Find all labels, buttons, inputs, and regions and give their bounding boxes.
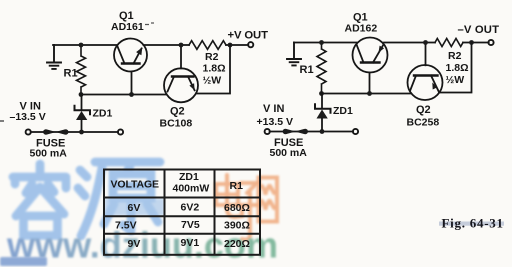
transistor Q1 (right) [353,38,388,73]
svg-text:500 mA: 500 mA [30,148,68,160]
watermark blue tint over 6V cell [105,199,165,216]
svg-text:680Ω: 680Ω [224,202,250,214]
wire top rail right [144,44,249,46]
svg-text:390Ω: 390Ω [224,220,250,232]
terminal bottom right (left circuit) [118,129,123,134]
watermark char RONG (blue) [13,164,66,236]
node Q1 base (right) [367,91,372,96]
svg-text:ZD1: ZD1 [179,171,199,183]
terminal input left [26,129,31,134]
svg-text:Fig. 64-31: Fig. 64-31 [442,216,504,231]
edge mark left [0,120,4,122]
svg-text:Q2: Q2 [416,104,431,116]
node R1 top [79,43,84,48]
transistor Q2 (right) [408,65,443,100]
fuse [43,129,68,134]
node Q1 base [129,92,134,97]
svg-text:220Ω: 220Ω [224,238,250,250]
resistor R1 [77,45,86,95]
resistor R2 [189,41,226,50]
svg-text:9V: 9V [128,238,141,250]
svg-text:400mW: 400mW [173,183,210,195]
wire mid rail [81,94,167,96]
watermark url www.dziuu.com [0,0,1,1]
terminal +V OUT [248,42,253,47]
svg-text:R2: R2 [205,51,219,63]
svg-text:–13.5 V: –13.5 V [10,111,46,123]
svg-text:1.8Ω: 1.8Ω [203,63,226,75]
transistor Q1 [114,39,147,72]
resistor R1 (right) [317,43,326,94]
svg-text:ZD1: ZD1 [93,108,113,120]
svg-text:VOLTAGE: VOLTAGE [111,179,160,191]
svg-text:6V: 6V [128,202,141,214]
svg-text:AD162: AD162 [345,23,378,35]
watermark bottom-left blue bar [0,257,47,266]
svg-text:1.8Ω: 1.8Ω [446,62,469,74]
zener ZD1 [75,95,91,133]
node ZD1 bottom (right) [320,129,325,134]
svg-text:½W: ½W [446,74,465,86]
terminal -V OUT [488,40,493,45]
wire emitter loop (right) [440,43,472,93]
wire bottom rail [31,131,118,133]
svg-text:BC258: BC258 [407,117,440,129]
wire Q1 base lead [131,72,133,95]
table grid [104,170,260,255]
svg-text:V IN: V IN [263,103,284,115]
node R2 right (right ckt) [469,40,474,45]
wire bottom rail (right) [270,131,353,133]
svg-text:7V5: 7V5 [181,219,200,231]
node Q2 base top (right) [423,40,428,45]
fuse (right) [283,129,308,134]
watermark char DIAN (orange) [216,175,242,217]
watermark char WANG (orange) [259,178,278,222]
wire top rail right (right ckt) [384,42,489,44]
terminal bottom right (right ckt) [353,129,358,134]
svg-text:R1: R1 [300,64,314,76]
svg-text:ZD1: ZD1 [333,105,353,117]
svg-text:+13.5 V: +13.5 V [257,116,294,128]
wire emitter loop [196,45,230,94]
svg-text:6V2: 6V2 [181,201,200,213]
svg-text:AD161: AD161 [111,21,144,33]
watermark strike band on caption [439,222,504,226]
wire top rail left [53,44,117,46]
svg-text:BC108: BC108 [160,118,193,130]
node R2 right [228,43,233,48]
svg-text:R1: R1 [230,180,244,192]
svg-text:9V1: 9V1 [181,237,200,249]
transistor Q2 [164,68,198,102]
svg-text:+V OUT: +V OUT [228,30,269,42]
wire Q2 base lead [180,45,182,68]
svg-text:–V OUT: –V OUT [458,24,500,36]
wire top rail left (right ckt) [294,42,356,44]
wire mid rail (right) [322,93,412,95]
watermark char YUAN (blue) [78,162,160,236]
svg-text:500 mA: 500 mA [270,147,308,159]
resistor R2 (right) [435,39,463,47]
watermark char ZI (orange) [239,183,260,240]
node R1 bottom [79,92,84,97]
zener ZD1 (right) [315,94,331,132]
svg-text:R2: R2 [448,50,462,62]
svg-text:7.5V: 7.5V [115,220,137,232]
ground [47,45,61,69]
node ZD1 bottom [79,130,84,135]
terminal input left (right ckt) [265,129,270,134]
wire Q2 base lead (right) [425,43,427,66]
mark after AD161 [145,23,154,25]
node R1 bottom (right) [319,91,324,96]
svg-text:Q2: Q2 [170,106,185,118]
wire Q1 base lead (right) [369,73,371,94]
node R1 top (right) [319,40,324,45]
node Q2 base top [179,43,184,48]
svg-text:R1: R1 [64,68,78,80]
ground (right) [287,43,301,66]
svg-text:½W: ½W [203,75,222,87]
